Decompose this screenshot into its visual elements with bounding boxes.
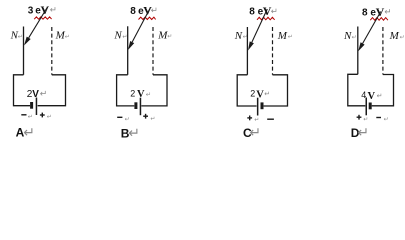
svg-text:↵: ↵: [288, 35, 293, 41]
battery BT-C negative plate (short thick): [261, 102, 264, 109]
svg-text:↵: ↵: [384, 6, 391, 16]
svg-text:↵: ↵: [400, 35, 405, 41]
electrode M plate (dashed): [382, 27, 384, 75]
svg-text:2: 2: [250, 89, 255, 99]
svg-text:↵: ↵: [23, 124, 35, 140]
svg-text:V: V: [256, 89, 264, 100]
battery BT-D positive plate (long thin): [366, 98, 368, 116]
spell-check squiggle under eV: [257, 17, 275, 20]
wire: left step: [237, 75, 256, 106]
photon arrow: [29, 7, 48, 38]
polarity minus (left): [117, 116, 122, 118]
battery BT-B negative plate (short thick): [134, 102, 137, 109]
svg-text:↵: ↵: [18, 34, 23, 40]
svg-text:V: V: [368, 91, 376, 102]
svg-text:↵: ↵: [122, 34, 127, 40]
polarity minus (right): [267, 118, 274, 120]
photon arrow: [132, 8, 150, 42]
wire: left step: [348, 74, 366, 106]
polarity minus (left): [21, 114, 26, 116]
svg-text:V: V: [137, 89, 145, 100]
wire: left step: [117, 75, 135, 106]
svg-text:↵: ↵: [254, 117, 259, 123]
svg-text:↵: ↵: [357, 124, 369, 140]
svg-text:↵: ↵: [264, 91, 270, 98]
wire: right step: [141, 75, 167, 106]
svg-text:↵: ↵: [249, 124, 261, 140]
svg-text:↵: ↵: [384, 117, 389, 123]
electrode M plate (dashed): [272, 27, 274, 75]
polarity plus (right): [40, 114, 45, 116]
svg-text:4: 4: [361, 90, 366, 100]
svg-text:↵: ↵: [150, 117, 155, 123]
battery BT-A positive plate (long thin): [36, 98, 38, 116]
svg-text:8: 8: [130, 6, 136, 17]
svg-text:↵: ↵: [352, 35, 357, 41]
svg-text:N: N: [234, 30, 243, 42]
svg-text:↵: ↵: [363, 117, 368, 123]
svg-text:3: 3: [28, 5, 34, 16]
svg-text:V: V: [41, 3, 50, 17]
svg-text:↵: ↵: [377, 93, 383, 100]
svg-text:N: N: [113, 30, 122, 42]
svg-text:↵: ↵: [28, 115, 33, 121]
polarity minus (right): [376, 117, 381, 119]
svg-text:↵: ↵: [243, 35, 248, 41]
svg-text:↵: ↵: [146, 92, 151, 99]
svg-text:↵: ↵: [167, 34, 172, 40]
svg-text:V: V: [32, 89, 39, 100]
wire: right step: [38, 75, 66, 106]
spell-check squiggle under eV: [34, 17, 51, 19]
electrode N plate (solid): [127, 26, 129, 75]
svg-text:↵: ↵: [151, 5, 158, 15]
svg-text:8: 8: [362, 8, 368, 19]
electrode M plate (dashed): [51, 27, 53, 75]
wire: right step: [264, 75, 288, 106]
photon arrow: [363, 12, 381, 44]
svg-text:M: M: [389, 30, 400, 42]
svg-text:↵: ↵: [271, 6, 278, 16]
battery BT-B positive plate (long thin): [140, 98, 142, 116]
svg-text:↵: ↵: [128, 125, 140, 141]
svg-text:8: 8: [249, 7, 255, 18]
svg-text:↵: ↵: [50, 5, 57, 15]
photon arrow: [252, 9, 267, 42]
svg-text:↵: ↵: [47, 115, 52, 121]
svg-text:↵: ↵: [40, 89, 48, 99]
electrode N plate (solid): [357, 27, 359, 75]
spell-check squiggle under eV: [139, 17, 156, 19]
polarity plus (right): [143, 115, 148, 117]
polarity plus (left): [357, 116, 362, 118]
battery BT-D negative plate (short thick): [369, 103, 372, 110]
svg-text:↵: ↵: [125, 117, 130, 123]
svg-text:M: M: [277, 30, 288, 42]
spell-check squiggle under eV: [370, 18, 388, 21]
battery BT-A negative plate (short thick): [30, 102, 33, 109]
svg-text:↵: ↵: [65, 34, 70, 40]
electrode N plate (solid): [23, 27, 25, 75]
wire: left step: [14, 75, 31, 106]
electrode M plate (dashed): [152, 27, 154, 75]
svg-text:2: 2: [130, 88, 135, 98]
wire: right step: [372, 75, 394, 106]
battery BT-C positive plate (long thin): [257, 98, 259, 116]
electrode N plate (solid): [246, 27, 248, 75]
polarity plus (left): [247, 117, 252, 119]
